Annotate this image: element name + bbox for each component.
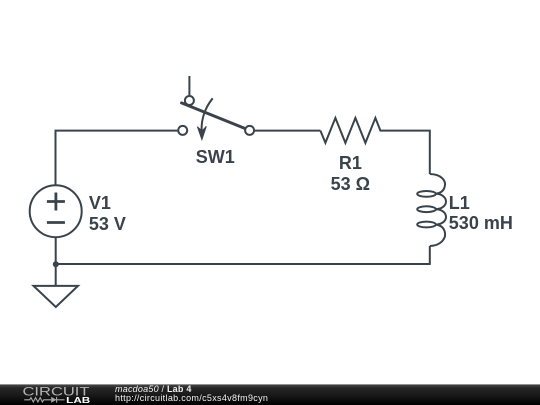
svg-text:V1: V1 bbox=[89, 193, 111, 213]
svg-text:L1: L1 bbox=[449, 193, 470, 213]
svg-text:R1: R1 bbox=[339, 153, 362, 173]
svg-text:LAB: LAB bbox=[66, 395, 90, 405]
svg-text:http://circuitlab.com/c5xs4v8f: http://circuitlab.com/c5xs4v8fm9cyn bbox=[115, 393, 268, 403]
svg-text:SW1: SW1 bbox=[196, 147, 235, 167]
svg-text:53 V: 53 V bbox=[89, 214, 126, 234]
svg-text:530 mH: 530 mH bbox=[449, 213, 513, 233]
svg-text:53 Ω: 53 Ω bbox=[331, 174, 370, 194]
